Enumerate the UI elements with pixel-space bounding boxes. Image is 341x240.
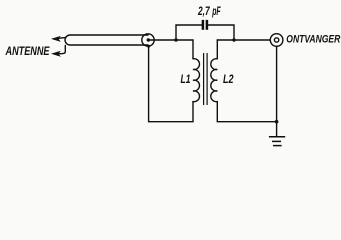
svg-text:L1: L1 bbox=[181, 74, 191, 86]
svg-text:ONTVANGER: ONTVANGER bbox=[286, 33, 340, 45]
svg-text:L2: L2 bbox=[223, 74, 234, 86]
svg-text:2,7: 2,7 bbox=[197, 4, 210, 18]
svg-text:ANTENNE: ANTENNE bbox=[5, 46, 50, 58]
svg-text:pF: pF bbox=[212, 4, 221, 18]
